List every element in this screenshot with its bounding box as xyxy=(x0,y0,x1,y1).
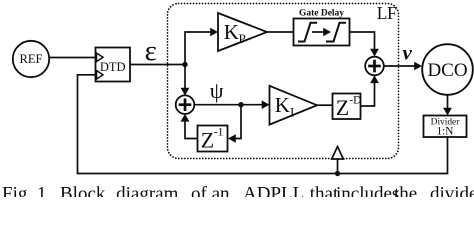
op-amp KI gain xyxy=(270,86,318,125)
DCO oscillator xyxy=(422,44,473,95)
svg-text:v: v xyxy=(403,40,413,64)
node psi junction xyxy=(238,102,243,107)
svg-text:P: P xyxy=(239,31,246,46)
svg-text:divider: divider xyxy=(430,184,474,198)
pin clock-triangle input 1 xyxy=(97,53,104,62)
wire DCO to divider xyxy=(447,95,449,109)
gate delay block xyxy=(294,8,350,45)
delay Z^-1 accumulator xyxy=(198,126,228,153)
node v wire adder to DCO xyxy=(384,65,415,67)
delay Z^-D xyxy=(333,94,362,120)
svg-text:K: K xyxy=(224,20,239,44)
wire adder U2 to KI xyxy=(194,104,263,106)
svg-text:LF: LF xyxy=(377,3,397,23)
svg-text:the: the xyxy=(394,184,417,198)
pin clock-triangle input 2 xyxy=(97,71,104,80)
caption Fig. 1. xyxy=(2,184,474,205)
svg-text:of an: of an xyxy=(191,184,230,198)
wire junction up to LF clock port xyxy=(337,160,339,174)
op-amp Kp gain xyxy=(218,13,267,51)
svg-text:Fig. 1.: Fig. 1. xyxy=(2,184,51,198)
svg-text:DTD: DTD xyxy=(100,60,126,74)
wire REF to DTD xyxy=(49,57,95,59)
DTD block xyxy=(96,48,131,82)
svg-text:1:N: 1:N xyxy=(437,125,454,137)
adder U3 xyxy=(365,57,384,76)
wire node eps up to Kp xyxy=(185,32,212,65)
adder U2 xyxy=(176,95,195,114)
svg-text:DCO: DCO xyxy=(427,60,467,81)
REF oscillator xyxy=(13,41,49,77)
svg-text:Z: Z xyxy=(201,128,214,153)
wire psi junction down to Z-1 xyxy=(235,105,242,139)
wire KI to Z-D xyxy=(317,104,333,106)
svg-text:-D: -D xyxy=(349,94,361,106)
node eps junction xyxy=(182,62,187,67)
divider 1:N xyxy=(424,116,467,138)
svg-text:Gate Delay: Gate Delay xyxy=(299,8,344,18)
svg-text:includes: includes xyxy=(336,184,399,198)
svg-text:K: K xyxy=(275,93,290,117)
LF loop-filter dashed box xyxy=(168,4,399,159)
svg-text:ε: ε xyxy=(145,35,157,67)
wire DTD output to node eps xyxy=(130,64,185,66)
wire Z-D to adder U3 xyxy=(361,82,375,106)
svg-text:Block diagram: Block diagram xyxy=(60,184,179,198)
wire node eps down to adder U2 xyxy=(184,65,186,89)
feedback wire divider to DTD xyxy=(78,75,448,174)
svg-text:I: I xyxy=(290,105,294,120)
svg-text:ADPLL that: ADPLL that xyxy=(243,184,339,198)
LF clock port triangle xyxy=(332,147,344,160)
svg-text:ψ: ψ xyxy=(210,78,224,103)
svg-text:-1: -1 xyxy=(214,127,224,139)
wire Kp to gate-delay xyxy=(267,31,294,33)
svg-text:REF: REF xyxy=(20,52,43,66)
wire gate-delay to adder U3 xyxy=(350,32,375,50)
svg-text:Z: Z xyxy=(336,95,349,120)
junction on feedback to LF clock xyxy=(335,171,340,176)
wire Z-1 back to adder U2 xyxy=(185,121,198,139)
